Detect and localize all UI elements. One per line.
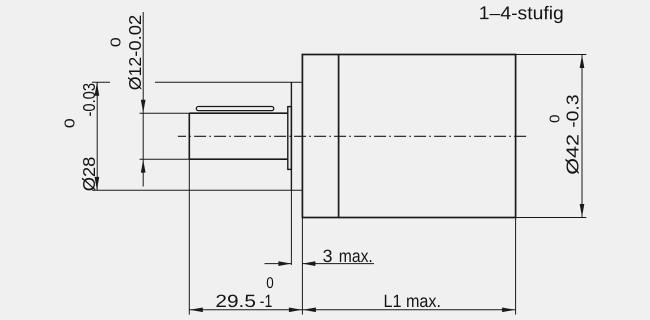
dia42 bottom extension line (516, 217, 587, 219)
arrowhead 29.5 right (points right) (289, 307, 302, 312)
3max dimension line left part (265, 263, 292, 265)
svg-text:-1: -1 (260, 291, 273, 311)
arrowhead dia28 bottom (95, 177, 100, 190)
svg-text:-0.02: -0.02 (125, 15, 145, 57)
extension line from boss face down (290, 190, 292, 265)
dia12 dimension line (142, 12, 144, 187)
extension line from shaft end down (188, 159, 190, 314)
motor body outline (302, 55, 515, 218)
housing joint line (338, 55, 340, 218)
svg-text:3: 3 (323, 246, 333, 266)
svg-text:0: 0 (547, 115, 564, 124)
svg-text:L1 max.: L1 max. (383, 291, 441, 311)
svg-text:0: 0 (61, 118, 78, 128)
dia28 bottom extension line (92, 189, 302, 191)
svg-text:-0.3: -0.3 (563, 94, 583, 128)
arrowhead 3max left (points right) (278, 261, 291, 266)
extension line from body front face down (301, 218, 303, 315)
svg-text:0: 0 (107, 37, 124, 47)
arrowhead 3max right (points left) (302, 261, 315, 266)
svg-text:Ø12: Ø12 (125, 57, 145, 91)
dia42 dimension line (581, 55, 583, 218)
arrowhead dia42 bottom (580, 204, 585, 217)
key flat on shaft (196, 107, 273, 111)
arrowhead L1 left (points left) (303, 307, 316, 312)
svg-text:max.: max. (339, 246, 373, 266)
dia28 dimension line (96, 82, 98, 190)
arrowhead dia12 upper (points down) (141, 100, 146, 113)
dia12 top extension line (140, 112, 190, 114)
extension line from body right edge down (515, 218, 517, 315)
pilot boss front face (290, 82, 292, 190)
svg-text:Ø28: Ø28 (79, 157, 99, 192)
dia28 top extension line (broken around dia12 text) (92, 81, 110, 83)
svg-text:29.5: 29.5 (215, 291, 256, 311)
bottom dimension line 29.5 and L1 (189, 309, 515, 311)
arrowhead dia28 top (95, 83, 100, 96)
shaft left end face (188, 113, 190, 159)
dia42 top extension line (516, 54, 587, 56)
shaft top edge (189, 112, 287, 114)
3max dimension line right part with text underline (302, 263, 374, 265)
arrowhead dia12 lower (points up) (141, 160, 146, 173)
arrowhead 29.5 left (points left) (190, 307, 203, 312)
svg-text:1–4-stufig: 1–4-stufig (479, 2, 564, 23)
svg-text:Ø42: Ø42 (563, 134, 583, 175)
svg-text:0: 0 (266, 275, 274, 292)
svg-text:-0.03: -0.03 (79, 83, 99, 117)
shaft collar (288, 107, 292, 170)
centerline (178, 135, 529, 137)
arrowhead dia42 top (580, 55, 585, 68)
shaft bottom edge (189, 158, 287, 160)
arrowhead L1 right (points right) (502, 307, 515, 312)
dia12 bottom extension line (140, 158, 190, 160)
